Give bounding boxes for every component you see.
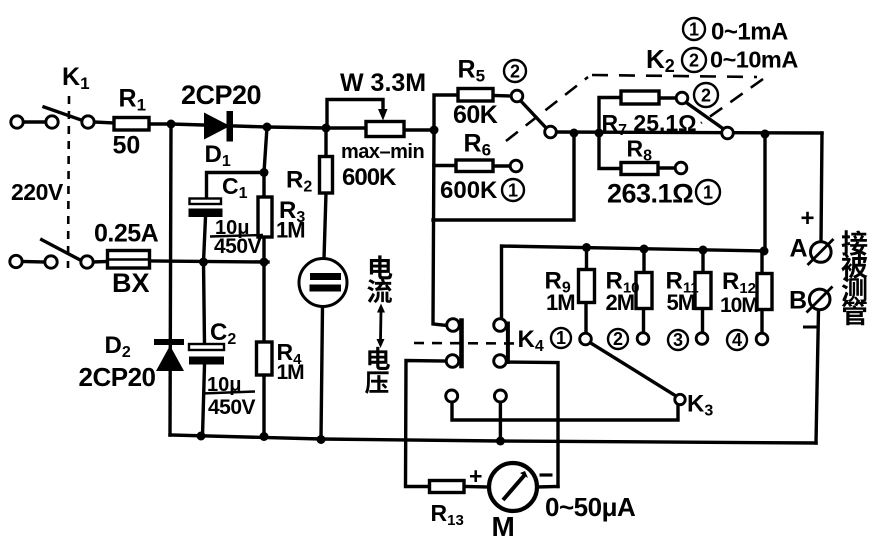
- svg-text:1M: 1M: [276, 218, 305, 243]
- svg-text:1M: 1M: [277, 361, 305, 384]
- svg-text:+: +: [801, 205, 815, 232]
- svg-text:1: 1: [689, 19, 699, 39]
- svg-text:A: A: [790, 235, 808, 263]
- svg-text:600K: 600K: [342, 164, 397, 191]
- svg-text:R7 25.1Ω: R7 25.1Ω: [602, 110, 697, 139]
- svg-text:0~50μA: 0~50μA: [545, 492, 636, 522]
- svg-text:600K: 600K: [440, 177, 498, 204]
- svg-text:B: B: [789, 287, 807, 315]
- svg-text:220V: 220V: [11, 179, 64, 205]
- svg-text:0.25A: 0.25A: [94, 220, 159, 248]
- svg-text:4: 4: [732, 330, 742, 350]
- svg-text:60K: 60K: [453, 101, 498, 129]
- svg-text:2CP20: 2CP20: [181, 80, 261, 110]
- svg-text:0~10mA: 0~10mA: [710, 47, 798, 73]
- svg-text:1: 1: [508, 180, 518, 200]
- svg-text:450V: 450V: [208, 396, 256, 419]
- svg-text:5M: 5M: [667, 290, 696, 315]
- svg-text:1: 1: [703, 183, 713, 203]
- svg-text:3: 3: [673, 330, 683, 350]
- svg-text:BX: BX: [112, 268, 150, 298]
- svg-text:1M: 1M: [546, 290, 575, 315]
- svg-text:max–min: max–min: [341, 141, 424, 163]
- svg-text:2: 2: [701, 86, 711, 106]
- svg-text:263.1Ω: 263.1Ω: [607, 179, 693, 209]
- svg-text:2: 2: [689, 51, 699, 71]
- svg-text:50: 50: [113, 132, 141, 160]
- svg-text:1: 1: [556, 328, 566, 348]
- svg-text:2CP20: 2CP20: [79, 362, 156, 392]
- svg-text:2: 2: [510, 61, 520, 81]
- svg-text:450V: 450V: [214, 235, 262, 258]
- svg-text:10M: 10M: [720, 294, 758, 317]
- svg-text:2: 2: [613, 329, 623, 349]
- svg-text:0~1mA: 0~1mA: [711, 19, 788, 46]
- svg-text:M: M: [492, 511, 515, 542]
- svg-text:W 3.3M: W 3.3M: [340, 69, 426, 97]
- svg-text:2M: 2M: [606, 290, 635, 315]
- svg-text:+: +: [469, 463, 482, 489]
